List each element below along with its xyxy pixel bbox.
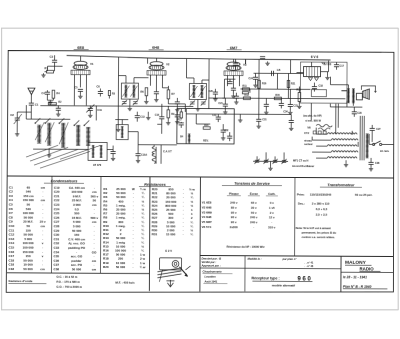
wire speaker field xyxy=(361,86,376,93)
oscillator coil box xyxy=(116,125,128,140)
svg-text:C1: C1 xyxy=(35,103,39,107)
svg-text:Août 1941: Août 1941 xyxy=(203,280,217,284)
resistor R5 xyxy=(108,91,110,99)
wire V4 leads xyxy=(297,61,329,73)
tube V3 6M7 xyxy=(224,62,243,75)
svg-text:Résistance du HP : 10000 W/v: Résistance du HP : 10000 W/v xyxy=(227,245,266,249)
svg-text:V4 6H8: V4 6H8 xyxy=(202,215,212,219)
wire left drop from C3 xyxy=(48,66,55,71)
svg-text:R31: R31 xyxy=(152,232,158,236)
tensions headers xyxy=(227,191,278,196)
wire below OT xyxy=(330,101,362,107)
capacitor C4 xyxy=(45,90,50,100)
title block row line left xyxy=(200,267,341,270)
svg-text:V3: V3 xyxy=(243,63,247,67)
capacitor C9 xyxy=(154,84,159,102)
capacitor C31 xyxy=(256,114,261,128)
table divider x101 xyxy=(99,176,102,273)
IF transformer 2 box xyxy=(189,83,206,99)
svg-text:50 000: 50 000 xyxy=(72,267,82,271)
paper edge left xyxy=(1,28,3,310)
capacitor C16b xyxy=(224,79,235,84)
svg-text:CY2: CY2 xyxy=(304,132,309,135)
svg-text:AT 470: AT 470 xyxy=(93,163,102,167)
capacitor C5 under tube xyxy=(78,89,83,98)
svg-text:le 28 - 11 - 1941: le 28 - 11 - 1941 xyxy=(343,275,367,279)
svg-text:-: - xyxy=(253,225,254,229)
capacitor C17 xyxy=(334,62,339,70)
ground C15 xyxy=(111,157,115,161)
svg-text:6H8: 6H8 xyxy=(152,46,159,50)
wire riser x288 xyxy=(287,73,289,98)
capacitor C32 in box xyxy=(227,132,232,141)
svg-text:C29: C29 xyxy=(357,112,362,115)
svg-text:90 v: 90 v xyxy=(231,215,237,219)
svg-text:65 v: 65 v xyxy=(251,201,257,205)
svg-text:modèle alternatif: modèle alternatif xyxy=(272,283,295,287)
padder coil xyxy=(92,145,103,157)
ground IF1 xyxy=(128,99,132,111)
border frame xyxy=(6,51,394,293)
svg-text:C18: C18 xyxy=(8,267,14,271)
svg-text:1 v5: 1 v5 xyxy=(269,206,275,210)
power transformer secondary bar xyxy=(366,134,369,158)
tube V2 6H8 xyxy=(147,62,166,75)
mains switch xyxy=(373,141,382,146)
dial lamp pictorial xyxy=(157,258,190,282)
cell chaudronnerie xyxy=(202,270,232,284)
capacitor C21 xyxy=(223,98,228,114)
svg-text:15 000: 15 000 xyxy=(166,232,176,236)
resistor R11 on det bus xyxy=(242,88,249,90)
wire screen bus xyxy=(208,97,345,100)
resistor R19 vertical xyxy=(297,87,302,109)
svg-text:110/115/230/245: 110/115/230/245 xyxy=(310,193,332,197)
wire riser x147 xyxy=(147,58,149,64)
svg-text:C11: C11 xyxy=(97,108,102,112)
pictorial antenna mark xyxy=(166,280,174,287)
svg-text:cordon s.a. seront reliées.: cordon s.a. seront reliées. xyxy=(302,235,336,239)
tone box xyxy=(311,90,326,97)
ground mid xyxy=(146,112,150,120)
wire HT feed lines xyxy=(336,104,339,135)
transformateur sec xyxy=(298,202,330,217)
capacitor C14 xyxy=(175,112,180,124)
cathode triangles V4 xyxy=(308,78,318,81)
ground trimmer row xyxy=(268,161,272,170)
coil tuning arrows xyxy=(35,122,68,144)
IF transformer 1 box xyxy=(121,83,138,99)
svg-text:C16: C16 xyxy=(155,114,160,117)
svg-text:Cath.: Cath. xyxy=(268,192,276,196)
svg-text:permanent, les prises B du: permanent, les prises B du xyxy=(302,231,337,235)
IF2 tuning arrows xyxy=(190,86,205,97)
svg-text:R4: R4 xyxy=(56,91,60,95)
svg-text:R14: R14 xyxy=(204,124,209,127)
ground C4 R4 xyxy=(47,100,53,104)
resistor R17 in box xyxy=(180,108,182,117)
capacitor C15A xyxy=(135,148,140,159)
wire left riser x118 xyxy=(116,76,121,132)
wire y73 af line xyxy=(254,72,304,74)
svg-text:2 v: 2 v xyxy=(270,211,274,215)
ground V4 xyxy=(325,72,329,80)
wire risers detector xyxy=(222,59,245,98)
svg-text:-: - xyxy=(183,233,184,237)
capacitor C8 xyxy=(56,105,61,116)
svg-text:95 v: 95 v xyxy=(231,210,237,214)
svg-text:R11: R11 xyxy=(242,85,247,88)
wire pt riser xyxy=(311,103,358,147)
capacitor C41 in box xyxy=(216,114,221,122)
switch wafer lines xyxy=(30,147,90,168)
svg-text:50 000: 50 000 xyxy=(116,265,126,269)
tensions rows xyxy=(202,201,276,230)
svg-text:Modifié le :: Modifié le : xyxy=(248,257,262,261)
wire OT to box xyxy=(330,77,348,91)
svg-text:(au plat. du HP): (au plat. du HP) xyxy=(303,115,322,118)
padder box xyxy=(88,142,107,160)
svg-text:si exc. 800 W: si exc. 800 W xyxy=(305,119,321,122)
condensateur table column 1 xyxy=(8,185,46,271)
ground top bus cap xyxy=(265,61,269,65)
wire riser x224 xyxy=(223,79,225,98)
wire coil bank bottom xyxy=(33,149,88,153)
svg-text:6 V 6: 6 V 6 xyxy=(311,55,319,59)
speaker xyxy=(356,89,369,100)
capacitor C20b xyxy=(234,93,239,105)
capacitor C28 xyxy=(368,158,373,171)
svg-text:50 v: 50 v xyxy=(251,211,257,215)
svg-text:C31: C31 xyxy=(262,118,267,121)
wire detector riser x205b xyxy=(208,70,210,109)
condensateur table column 2 xyxy=(53,186,98,272)
svg-text:Sec.:: Sec.: xyxy=(298,202,305,206)
capacitor C13 xyxy=(135,112,140,122)
capacitor C34 xyxy=(289,114,294,130)
svg-text:C27: C27 xyxy=(376,128,381,131)
wire under box xyxy=(138,144,177,146)
trimmers IF1 xyxy=(122,100,138,105)
svg-text:C38: C38 xyxy=(53,267,59,271)
svg-text:R6: R6 xyxy=(140,90,144,94)
svg-text:B2 153: B2 153 xyxy=(324,63,332,66)
rectifier cells CY2 xyxy=(304,131,326,135)
svg-text:Chaudronnerie: Chaudronnerie xyxy=(202,270,222,274)
svg-text:G.O. : 700 à 2000 m: G.O. : 700 à 2000 m xyxy=(56,285,82,289)
wire c16 tap xyxy=(157,123,161,125)
capacitor C11 variable xyxy=(86,104,94,117)
wave switch contacts 1 xyxy=(35,118,65,124)
wire trimmer risers xyxy=(257,152,284,161)
cell recepteur type xyxy=(251,276,312,288)
wire V1 pins xyxy=(74,56,86,91)
svg-text:V5 6M7: V5 6M7 xyxy=(202,220,212,224)
gammes values xyxy=(56,275,82,289)
wire PT winding feeds xyxy=(312,128,331,159)
ground IF2 xyxy=(196,99,200,111)
svg-text:R21: R21 xyxy=(291,82,296,85)
svg-text:2x300: 2x300 xyxy=(230,225,238,229)
capacitor C27 xyxy=(370,125,375,142)
svg-text:50 000: 50 000 xyxy=(23,267,33,271)
svg-text:C.A.V.T: C.A.V.T xyxy=(163,150,172,153)
resistance table column 2 xyxy=(152,187,196,236)
resistor R6 xyxy=(144,88,148,104)
resistor R13 on screen bus xyxy=(243,97,250,100)
svg-text:C41: C41 xyxy=(212,114,217,117)
wire riser x205 xyxy=(208,59,210,70)
resistor R4 xyxy=(52,90,55,100)
svg-text:12 v: 12 v xyxy=(269,216,275,220)
wire top bus xyxy=(67,55,331,59)
wire IF2 leads xyxy=(186,59,209,84)
oscillator tickler coil xyxy=(152,147,156,164)
svg-text:C34: C34 xyxy=(283,110,288,113)
wire riser x290 xyxy=(290,60,292,74)
svg-text:Condensateurs: Condensateurs xyxy=(51,179,78,183)
tube V1 6E8 xyxy=(71,61,90,74)
BF box internal wall xyxy=(185,109,187,144)
wire AVC bus xyxy=(40,105,193,108)
svg-text:¼ w: ¼ w xyxy=(140,265,146,269)
output section box xyxy=(300,62,347,103)
resistor R16b vertical xyxy=(258,80,261,88)
wire IF1 leads xyxy=(118,57,148,83)
paper edge bottom xyxy=(1,309,399,311)
cell malony radio xyxy=(345,260,381,271)
svg-text:90 v: 90 v xyxy=(231,220,237,224)
capacitor C19 xyxy=(231,82,236,98)
wire OT leads xyxy=(341,85,353,106)
capacitor C29 xyxy=(352,107,357,117)
coil L5 xyxy=(86,127,90,145)
table divider x295 xyxy=(294,177,296,255)
svg-text:Résistances: Résistances xyxy=(144,183,166,187)
svg-text:V3 6M9: V3 6M9 xyxy=(202,210,212,214)
transformateur prim xyxy=(297,193,373,197)
capacitor C2 variable xyxy=(14,112,32,132)
svg-text:-: - xyxy=(132,265,133,269)
ground R1 xyxy=(41,73,45,77)
svg-text:Prim:: Prim: xyxy=(297,193,305,197)
svg-text:C4: C4 xyxy=(41,91,45,95)
capacitor C on top bus xyxy=(260,57,265,59)
svg-text:C21: C21 xyxy=(218,102,223,105)
capacitor C24 xyxy=(253,73,258,87)
capacitor C16 xyxy=(233,59,238,70)
BF box xyxy=(177,108,234,143)
wire detector bus xyxy=(240,88,310,90)
wire V3 pins xyxy=(227,59,239,86)
svg-text:310 v: 310 v xyxy=(268,225,276,229)
resistor R12 xyxy=(242,89,250,94)
svg-text:C6: C6 xyxy=(96,84,100,88)
svg-text:6M7: 6M7 xyxy=(230,46,237,50)
coil L3 xyxy=(61,123,65,147)
svg-text:. . n° 43: . . n° 43 xyxy=(304,265,313,268)
svg-text:M.F. : 455 kc/s: M.F. : 455 kc/s xyxy=(115,280,135,284)
capacitor C6 xyxy=(98,88,103,96)
svg-text:C28: C28 xyxy=(375,162,380,165)
capacitor C16c xyxy=(159,104,164,134)
IF1 tuning arrows xyxy=(122,86,137,97)
capacitor C23 xyxy=(288,89,293,114)
title block top line xyxy=(200,256,393,257)
svg-text:C18: C18 xyxy=(318,85,323,88)
svg-text:V6: V6 xyxy=(307,126,311,130)
svg-text:Récepteur type :: Récepteur type : xyxy=(251,276,279,280)
svg-text:R16: R16 xyxy=(262,82,267,85)
cell modifie le xyxy=(247,257,313,269)
capacitor C1 xyxy=(29,103,34,119)
svg-text:-: - xyxy=(271,220,272,224)
svg-text:MF1 CT ou H: MF1 CT ou H xyxy=(293,159,308,162)
coil L4 xyxy=(76,125,80,145)
wire trimmer rail xyxy=(253,160,288,162)
svg-text:85 v: 85 v xyxy=(231,206,237,210)
transformateur nota xyxy=(296,226,337,239)
resistor R21 vertical xyxy=(287,80,290,87)
resistor R9 vertical xyxy=(166,106,170,125)
IF2 primary coil xyxy=(192,85,195,97)
svg-text:2,5 + 2,5: 2,5 + 2,5 xyxy=(316,213,328,217)
rectifier filament V6 xyxy=(316,124,332,130)
table divider x200 xyxy=(199,177,202,291)
svg-text:30 v: 30 v xyxy=(251,206,257,210)
table top divider xyxy=(7,176,393,178)
svg-text:2 x 280 v 110: 2 x 280 v 110 xyxy=(312,202,330,206)
wire osc risers xyxy=(96,105,138,149)
svg-text:C13: C13 xyxy=(140,116,145,119)
svg-text:O.C. : 16 à 52 m: O.C. : 16 à 52 m xyxy=(56,275,77,279)
resistor R2 xyxy=(48,103,56,105)
tube V4 6V6 xyxy=(303,67,320,77)
resistor R14 in box xyxy=(203,127,210,129)
svg-text:C20: C20 xyxy=(208,90,213,93)
ground coil bank xyxy=(47,153,51,157)
paper edge right xyxy=(397,28,399,310)
wire mains xyxy=(369,134,393,145)
cell dessine par xyxy=(200,256,221,267)
wire V2 couplings xyxy=(162,88,185,112)
svg-text:par plan n°: par plan n° xyxy=(282,257,298,261)
resistor R7 xyxy=(167,86,170,104)
cell plan number xyxy=(343,285,388,289)
wire coil link bus xyxy=(26,105,128,125)
svg-text:R7: R7 xyxy=(171,92,175,96)
wire V2 pins xyxy=(150,58,162,88)
capacitor C15 xyxy=(110,146,115,157)
wire box internal bus xyxy=(186,114,234,124)
svg-text:RADIO: RADIO xyxy=(359,266,374,271)
output transformer xyxy=(347,89,355,103)
capacitor C42 in box xyxy=(221,124,226,140)
svg-text:int. lum.: int. lum. xyxy=(380,150,390,153)
svg-text:C2: C2 xyxy=(10,113,14,117)
svg-text:Location: Location xyxy=(204,275,216,279)
svg-text:V6 5Y4: V6 5Y4 xyxy=(202,225,212,229)
svg-text:Gammes d'onde: Gammes d'onde xyxy=(8,279,32,283)
switch wafer lines 2 xyxy=(26,145,100,159)
svg-text:Dessiné par : B: Dessiné par : B xyxy=(202,256,222,260)
svg-text:245 v: 245 v xyxy=(230,201,238,205)
wire tickler drop xyxy=(154,145,161,164)
svg-text:240 v: 240 v xyxy=(250,220,258,224)
wire riser x258 xyxy=(258,59,260,114)
capacitor C18 xyxy=(312,83,317,92)
svg-text:E 2 5: E 2 5 xyxy=(165,249,172,253)
svg-text:R19: R19 xyxy=(296,89,301,92)
svg-text:Accord Oscillateur: Accord Oscillateur xyxy=(292,165,314,168)
capacitor C12 xyxy=(175,98,180,112)
title block divider x245 xyxy=(244,256,246,292)
svg-text:P.O. : 175 à 580 m: P.O. : 175 à 580 m xyxy=(56,280,80,284)
title block row line right xyxy=(341,271,393,273)
IF1 primary coil xyxy=(124,85,127,97)
svg-text:C15A: C15A xyxy=(141,154,147,157)
wire B+ bus xyxy=(234,113,291,115)
choke in box xyxy=(188,134,191,144)
table divider x52 xyxy=(50,176,53,273)
svg-text:V1 6E8: V1 6E8 xyxy=(202,201,212,205)
coil L1 xyxy=(37,125,41,143)
wire coil bank top xyxy=(26,118,70,120)
wire V1 grid drop xyxy=(74,89,86,105)
table divider x150 xyxy=(148,177,151,291)
wave switch contacts 2 xyxy=(74,120,90,126)
oscillator coil winding xyxy=(121,127,124,138)
series capacitor on af line xyxy=(271,71,273,76)
power transformer core xyxy=(360,116,364,161)
svg-text:REV.: REV. xyxy=(203,140,209,143)
title block divider x341 xyxy=(340,256,342,291)
capacitor C26 xyxy=(279,98,284,108)
svg-text:0 v: 0 v xyxy=(270,201,274,205)
capacitor C3 xyxy=(48,55,63,66)
svg-text:Plan N° B - R 1940: Plan N° B - R 1940 xyxy=(343,285,372,289)
svg-text:cm: cm xyxy=(40,267,45,271)
antenna xyxy=(28,88,35,103)
svg-text:Transformateur: Transformateur xyxy=(327,183,355,187)
svg-text:V2 6H8: V2 6H8 xyxy=(202,205,212,209)
resistor R15 on screen bus xyxy=(274,97,281,100)
ground PT xyxy=(344,160,348,167)
trimmers IF2 xyxy=(190,100,206,105)
IF1 secondary coil xyxy=(132,85,135,97)
svg-text:6,3 + 6,3: 6,3 + 6,3 xyxy=(316,207,328,211)
svg-text:1-B: 1-B xyxy=(277,69,281,72)
svg-text:cm: cm xyxy=(92,267,97,271)
svg-text:Plaque: Plaque xyxy=(229,192,239,196)
svg-text:50 ou 25 pér.: 50 ou 25 pér. xyxy=(355,193,373,197)
svg-text:6E8: 6E8 xyxy=(77,46,84,50)
svg-text:C24: C24 xyxy=(248,77,253,80)
resistor R1 xyxy=(45,70,54,73)
capacitor C40 in box xyxy=(179,122,184,128)
power transformer windings xyxy=(327,133,358,159)
wire v3 plate riser xyxy=(245,59,277,89)
svg-text:V1: V1 xyxy=(90,62,94,66)
paper edge top xyxy=(1,27,399,29)
svg-text:Tensions de Service: Tensions de Service xyxy=(234,181,270,185)
svg-text:Nota: Si le H.P. est à aiman: Nota: Si le H.P. est à aimant xyxy=(296,226,331,230)
coil L2 xyxy=(47,123,51,145)
svg-text:Écran: Écran xyxy=(250,191,259,196)
ground C15A xyxy=(136,159,140,163)
svg-text:R17: R17 xyxy=(178,119,183,121)
svg-text:secteur: secteur xyxy=(304,143,313,146)
